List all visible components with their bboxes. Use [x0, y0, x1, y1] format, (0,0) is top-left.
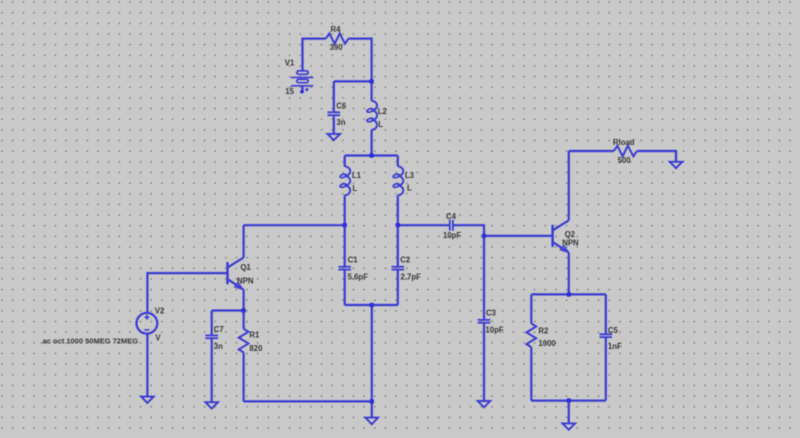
svg-text:L3: L3	[405, 171, 415, 180]
wire Rload right to ground	[637, 151, 676, 162]
wire tank top	[345, 154, 398, 156]
svg-text:R4: R4	[331, 25, 342, 34]
resistor R4	[326, 33, 349, 43]
svg-text:L2: L2	[378, 107, 388, 116]
wire bottom to ground	[568, 401, 570, 424]
svg-text:3n: 3n	[214, 342, 223, 351]
svg-text:C4: C4	[446, 212, 457, 221]
resistor Rload	[614, 146, 637, 157]
svg-text:Q1: Q1	[240, 263, 251, 272]
capacitor C2	[392, 225, 405, 305]
wire R1 bottom return	[244, 400, 372, 402]
svg-text:L: L	[378, 120, 383, 129]
capacitor C3	[478, 236, 491, 401]
node junction tank top	[369, 153, 373, 157]
wire collector to Rload	[569, 150, 614, 152]
svg-text:C1: C1	[348, 255, 359, 264]
inductor L1	[340, 156, 351, 226]
node junction tank mid-left	[343, 223, 347, 227]
wire tank bottom	[345, 304, 398, 306]
svg-text:C5: C5	[608, 326, 619, 335]
svg-text:10pF: 10pF	[485, 325, 503, 334]
svg-text:10pF: 10pF	[443, 231, 461, 240]
wire Q1 base from V2	[147, 273, 227, 313]
wire tank mid-left to Q1 collector	[243, 224, 344, 226]
wire C4 right to Q2 base corner	[453, 225, 553, 236]
node junction tank mid-right	[396, 223, 400, 227]
wire tank bottom to ground	[371, 305, 373, 418]
inductor L2	[366, 81, 377, 155]
ground C7	[205, 402, 218, 408]
capacitor C1	[338, 225, 351, 305]
transistor Q1	[228, 258, 244, 290]
ground R2/C5	[563, 423, 576, 429]
battery V1	[291, 71, 313, 94]
capacitor C6	[328, 81, 341, 133]
svg-text:L: L	[407, 184, 412, 193]
svg-text:390: 390	[330, 43, 344, 52]
svg-text:C6: C6	[336, 102, 347, 111]
capacitor C4	[450, 220, 453, 231]
svg-text:V: V	[155, 334, 161, 343]
svg-text:15: 15	[285, 87, 294, 96]
svg-text:820: 820	[249, 344, 263, 353]
wire tank mid-right to C4	[398, 224, 450, 226]
wire Q1 emitter down	[243, 290, 245, 311]
node junction R4/C6/L2	[369, 79, 373, 83]
wire Q1 collector	[243, 225, 245, 257]
wire C7 top	[212, 309, 244, 311]
svg-text:V1: V1	[285, 59, 295, 68]
svg-text:C7: C7	[214, 325, 224, 334]
wire Q2 emitter down	[568, 253, 570, 295]
svg-text:NPN: NPN	[237, 276, 254, 285]
node junction C4/C3/Q2	[482, 234, 486, 238]
ground C6	[328, 134, 341, 140]
svg-text:C2: C2	[400, 255, 411, 264]
inductor L3	[393, 156, 404, 226]
wire V2 bottom to ground	[146, 334, 148, 397]
node junction Q1 emitter / C7 / R1	[241, 308, 245, 312]
capacitor C7	[205, 311, 218, 403]
wire R2/C5 top	[531, 293, 606, 295]
node junction tank bottom	[370, 303, 374, 307]
wire C6 top to node	[334, 80, 372, 82]
node junction R1 return	[370, 399, 374, 403]
svg-text:NPN: NPN	[562, 239, 579, 248]
svg-text:R2: R2	[538, 327, 549, 336]
svg-text:500: 500	[618, 156, 632, 165]
node junction emitter return	[567, 398, 571, 402]
svg-text:5.6pF: 5.6pF	[348, 272, 369, 281]
svg-text:3n: 3n	[336, 118, 345, 127]
svg-text:C3: C3	[486, 309, 497, 318]
wire V1 top to R4 left	[303, 39, 326, 71]
svg-text:L1: L1	[352, 171, 362, 180]
wire R2/C5 bottom	[531, 400, 606, 402]
svg-text:.ac oct 1000 50MEG 72MEG: .ac oct 1000 50MEG 72MEG	[41, 337, 139, 346]
ground Rload	[670, 162, 683, 168]
wire Q2 collector up	[568, 151, 570, 220]
transistor Q2	[553, 220, 569, 252]
svg-text:V2: V2	[155, 306, 165, 315]
resistor R2	[527, 294, 537, 400]
resistor R1	[239, 311, 249, 402]
svg-text:1nF: 1nF	[608, 342, 622, 351]
capacitor C5	[600, 294, 613, 400]
svg-text:R1: R1	[249, 331, 260, 340]
ground C3	[478, 401, 491, 407]
wire R4 right to corner	[348, 39, 371, 82]
svg-text:L: L	[352, 184, 357, 193]
voltage source V2	[137, 313, 158, 334]
svg-text:1000: 1000	[538, 339, 556, 348]
node junction Q2 emitter	[567, 292, 571, 296]
ground V2	[141, 397, 154, 403]
svg-text:Rload: Rload	[613, 138, 635, 147]
svg-text:2.7pF: 2.7pF	[401, 272, 422, 281]
ground tank center	[366, 418, 379, 425]
